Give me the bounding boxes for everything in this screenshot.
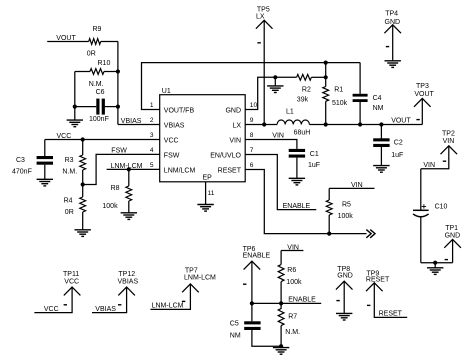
- svg-text:470nF: 470nF: [12, 169, 32, 176]
- svg-text:1uF: 1uF: [391, 152, 403, 159]
- svg-text:VIN: VIN: [423, 162, 435, 169]
- svg-text:1uF: 1uF: [308, 162, 320, 169]
- junction LX rail: [262, 122, 266, 126]
- wire R6 bottom: [280, 282, 282, 304]
- svg-text:TP4: TP4: [385, 10, 398, 17]
- svg-text:R3: R3: [65, 157, 74, 164]
- svg-text:TP12: TP12: [118, 271, 135, 278]
- svg-text:VIN: VIN: [272, 133, 284, 140]
- svg-text:R8: R8: [111, 185, 120, 192]
- wire TP2 stem: [421, 146, 449, 169]
- wire VCC to R3: [82, 140, 84, 156]
- svg-text:FSW: FSW: [111, 148, 127, 155]
- junction R6/R7/enable: [279, 301, 283, 305]
- U1 pin numbers: [150, 102, 258, 197]
- ground R2 node: [267, 86, 283, 93]
- node VOUT rail (net label): [391, 118, 411, 125]
- svg-text:VOUT/FB: VOUT/FB: [164, 107, 195, 114]
- wire C2 top: [380, 125, 382, 139]
- svg-text:TP2: TP2: [442, 131, 455, 138]
- wire VIN stub R5: [329, 187, 374, 189]
- wire bottom ground rail: [421, 262, 453, 264]
- svg-text:RESET: RESET: [379, 310, 403, 317]
- wire R7 top: [280, 303, 282, 309]
- svg-text:100k: 100k: [102, 203, 118, 210]
- svg-text:L1: L1: [286, 109, 294, 116]
- resistor R4: [64, 197, 86, 216]
- junction R10 right: [116, 69, 120, 73]
- test point TP5: [256, 7, 273, 29]
- svg-text:VOUT: VOUT: [414, 91, 434, 98]
- wire feedback down to R2 node: [325, 63, 327, 78]
- resistor R10: [89, 60, 111, 88]
- svg-text:TP3: TP3: [416, 83, 429, 90]
- node ENABLE row (net label): [288, 297, 316, 304]
- svg-text:N.M.: N.M.: [89, 81, 104, 88]
- test point TP4: [384, 10, 401, 33]
- TP9 tick: [367, 304, 370, 306]
- wire vertical R9/R10/C6/VBIAS: [117, 42, 119, 125]
- wire TP9 stem: [374, 283, 407, 318]
- svg-text:C1: C1: [310, 151, 319, 158]
- svg-text:R7: R7: [288, 314, 297, 321]
- wire R2 to R1: [311, 76, 325, 78]
- node VBIAS (net label): [121, 118, 142, 125]
- svg-text:GND: GND: [225, 107, 241, 114]
- wire R8 top: [128, 169, 130, 186]
- TP1 tick: [445, 259, 448, 261]
- ground C2: [373, 166, 389, 173]
- node RESET TP9 (net label): [379, 310, 403, 317]
- svg-text:TP11: TP11: [63, 271, 79, 278]
- capacitor C1: [289, 149, 320, 169]
- wire gnd stub: [274, 77, 276, 86]
- off-page connector reset: [366, 230, 375, 238]
- TP12 tick: [118, 304, 121, 306]
- wire enable row: [252, 302, 321, 304]
- ground C1: [289, 178, 305, 185]
- wire R9 to corner: [101, 41, 118, 43]
- svg-text:RESET: RESET: [366, 277, 390, 284]
- wire LNM-LCM pin5: [107, 168, 160, 170]
- capacitor C6: [89, 89, 109, 123]
- svg-text:68uH: 68uH: [294, 129, 311, 136]
- junction gnd node: [273, 75, 277, 79]
- svg-text:C10: C10: [435, 204, 448, 211]
- wire TP6 stem: [251, 261, 253, 303]
- wire VCC pin3: [45, 139, 160, 141]
- svg-text:VIN: VIN: [229, 137, 241, 144]
- wire L1 to TP3: [309, 124, 422, 126]
- svg-text:R6: R6: [287, 267, 296, 274]
- junction R8 top: [127, 167, 131, 171]
- svg-text:R9: R9: [93, 26, 102, 33]
- svg-text:FSW: FSW: [164, 152, 180, 159]
- junction R7/C5/ground: [279, 344, 283, 348]
- svg-text:VBIAS: VBIAS: [118, 279, 139, 286]
- junction R3/R4/FSW: [81, 182, 85, 186]
- junction feedback/R1: [324, 61, 328, 65]
- junction R1/rail: [324, 122, 328, 126]
- ground R7/C5: [273, 348, 289, 355]
- svg-text:C5: C5: [230, 320, 239, 327]
- ground R8: [121, 213, 137, 220]
- wire TP5 stem: [263, 20, 265, 124]
- svg-text:10: 10: [250, 102, 258, 109]
- svg-text:N.M.: N.M.: [62, 169, 77, 176]
- svg-text:VCC: VCC: [164, 137, 179, 144]
- capacitor C10 (polarized): [413, 204, 448, 217]
- wire C6 to ground: [74, 107, 76, 121]
- TP11 tick: [64, 304, 67, 306]
- wire TP11 stem: [34, 287, 72, 313]
- wire C1 to ground: [296, 158, 298, 179]
- test point TP2: [441, 131, 458, 155]
- resistor R5: [326, 200, 353, 220]
- wire TP4 stem: [392, 25, 394, 61]
- svg-text:VIN: VIN: [443, 138, 455, 145]
- wire C5 top: [251, 303, 253, 321]
- test point TP1: [444, 225, 461, 248]
- svg-text:VOUT: VOUT: [391, 118, 411, 125]
- svg-text:R10: R10: [98, 60, 111, 67]
- svg-text:11: 11: [208, 190, 215, 197]
- wire VIN stub R6: [281, 250, 303, 252]
- svg-text:ENABLE: ENABLE: [283, 203, 311, 210]
- U1 pin names: [164, 107, 242, 181]
- wire TP7 stem: [151, 284, 191, 310]
- test point TP9: [366, 271, 390, 292]
- inductor L1: [277, 109, 310, 137]
- svg-text:6: 6: [250, 162, 254, 169]
- svg-text:N.M.: N.M.: [285, 329, 300, 336]
- ground TP4: [385, 61, 401, 68]
- svg-text:LNM/LCM: LNM/LCM: [164, 167, 196, 174]
- svg-text:C2: C2: [394, 140, 403, 147]
- node FSW (net label): [111, 148, 127, 155]
- svg-text:LX: LX: [232, 122, 241, 129]
- wire pin9 LX: [245, 124, 277, 126]
- op-amp U1 (IC body): [160, 88, 246, 182]
- wire VIN to C10: [420, 169, 422, 211]
- wire R4 to ground: [82, 212, 84, 230]
- capacitor C2: [373, 138, 403, 159]
- wire junction to R4: [82, 185, 84, 198]
- resistor R1: [323, 86, 348, 107]
- wire pin8 VIN: [245, 140, 297, 149]
- svg-text:R4: R4: [64, 198, 73, 205]
- resistor R8: [102, 185, 131, 210]
- wire R8 to ground: [128, 201, 130, 213]
- wire pin6 reset: [245, 170, 366, 234]
- svg-text:5: 5: [150, 162, 154, 169]
- svg-text:39k: 39k: [297, 96, 309, 103]
- node VIN TP2 (net label): [423, 162, 435, 169]
- svg-text:510k: 510k: [332, 100, 348, 107]
- wire GND pin10: [245, 77, 296, 109]
- svg-text:TP1: TP1: [445, 225, 458, 232]
- svg-text:LNM-LCM: LNM-LCM: [152, 303, 184, 310]
- wire FSW link: [83, 154, 160, 184]
- wire R3 to junction: [82, 170, 84, 185]
- wire C10 to ground rail: [420, 217, 422, 263]
- test point TP6: [243, 246, 271, 269]
- node VIN above R5 (net label): [351, 182, 363, 189]
- node LNM-LCM (net label): [111, 163, 143, 170]
- wire R10 right: [104, 71, 118, 73]
- wire C5 bottom: [252, 330, 281, 346]
- wire C4 bottom: [359, 102, 361, 125]
- svg-text:100k: 100k: [286, 279, 302, 286]
- svg-text:8: 8: [250, 132, 254, 139]
- wire pin7 enable: [245, 155, 316, 210]
- svg-text:VIN: VIN: [351, 182, 363, 189]
- node VCC (net label): [57, 133, 72, 140]
- svg-text:C4: C4: [373, 95, 382, 102]
- wire VOUT to R9: [47, 41, 88, 43]
- junction C2 top: [379, 122, 383, 126]
- svg-text:C3: C3: [16, 157, 25, 164]
- svg-text:NM: NM: [373, 105, 384, 112]
- wire R10 left: [75, 71, 90, 73]
- svg-text:LNM-LCM: LNM-LCM: [184, 275, 216, 282]
- ground R4: [75, 230, 91, 237]
- node ENABLE pin7 (net label): [283, 203, 311, 210]
- wire TP12 stem: [92, 287, 127, 313]
- svg-text:EP: EP: [203, 175, 213, 182]
- svg-text:TP5: TP5: [257, 7, 270, 14]
- TP4 tick: [386, 46, 389, 48]
- svg-text:TP7: TP7: [185, 268, 198, 275]
- ground bottom right: [427, 268, 443, 275]
- junction C6 left: [73, 105, 77, 109]
- test point TP12: [118, 271, 139, 295]
- svg-text:ENABLE: ENABLE: [243, 253, 271, 260]
- svg-text:R2: R2: [302, 86, 311, 93]
- svg-text:100k: 100k: [338, 213, 354, 220]
- junction C6 right: [116, 105, 120, 109]
- junction TP6/C5/enable: [250, 301, 254, 305]
- svg-text:NM: NM: [230, 333, 241, 340]
- resistor R6: [278, 265, 302, 286]
- TP7 tick: [182, 300, 185, 302]
- TP6 tick: [243, 283, 246, 285]
- wire VIN to R6: [280, 251, 282, 265]
- svg-text:9: 9: [250, 117, 254, 124]
- svg-text:2: 2: [150, 117, 154, 124]
- TP5 tick: [257, 42, 260, 44]
- wire feedback pin1: [142, 63, 361, 110]
- wire C2 to ground: [380, 147, 382, 166]
- svg-text:VCC: VCC: [64, 279, 79, 286]
- svg-text:VBIAS: VBIAS: [95, 306, 116, 313]
- capacitor C5: [230, 320, 261, 339]
- capacitor C3: [12, 156, 53, 176]
- wire R1 bottom: [325, 101, 327, 124]
- wire VBIAS pin2: [118, 124, 160, 126]
- junction ground rail: [433, 261, 437, 265]
- resistor R9: [87, 26, 102, 57]
- ground C6: [67, 120, 83, 127]
- ground C3: [37, 179, 53, 186]
- svg-text:LX: LX: [256, 14, 265, 21]
- wire R5 top: [328, 188, 330, 200]
- resistor R3: [62, 155, 85, 176]
- svg-text:GND: GND: [337, 273, 353, 280]
- svg-text:VBIAS: VBIAS: [164, 122, 185, 129]
- svg-text:RESET: RESET: [218, 167, 242, 174]
- svg-text:0R: 0R: [87, 51, 96, 58]
- wire TP8 stem: [343, 281, 345, 313]
- node VCC TP11 (net label): [44, 306, 59, 313]
- node LNM-LCM TP7 (net label): [152, 303, 184, 310]
- TP2 tick: [443, 160, 446, 162]
- svg-text:ENABLE: ENABLE: [288, 297, 316, 304]
- svg-text:100nF: 100nF: [89, 116, 109, 123]
- svg-text:EN/UVLO: EN/UVLO: [210, 152, 241, 159]
- wire C3 to ground: [44, 165, 46, 180]
- wire C6 left: [75, 106, 97, 108]
- TP8 tick: [336, 300, 339, 302]
- junction C4/rail: [358, 122, 362, 126]
- wire left vertical to C6: [74, 72, 76, 107]
- wire gnd stub2: [434, 263, 436, 268]
- ground EP: [197, 205, 213, 212]
- wire R5 bottom: [328, 215, 330, 234]
- svg-text:GND: GND: [445, 233, 461, 240]
- test point TP3: [414, 83, 435, 107]
- node VBIAS TP12 (net label): [95, 306, 116, 313]
- resistor R7: [278, 309, 300, 336]
- svg-text:4: 4: [150, 147, 154, 154]
- junction R5/reset: [327, 232, 331, 236]
- wire R1 top: [325, 77, 327, 86]
- wire R7 bottom: [280, 326, 282, 347]
- svg-text:1: 1: [150, 102, 154, 109]
- test point TP7: [182, 268, 216, 293]
- svg-text:3: 3: [150, 132, 154, 139]
- svg-text:R1: R1: [334, 86, 343, 93]
- node VIN pin8 (net label): [272, 133, 284, 140]
- svg-text:U1: U1: [162, 88, 171, 95]
- test point TP11: [63, 271, 80, 295]
- svg-text:R5: R5: [342, 202, 351, 209]
- capacitor C4: [353, 94, 384, 112]
- junction R2/R1: [324, 75, 328, 79]
- wire TP3 stem: [421, 98, 423, 124]
- wire VCC to C3: [44, 140, 46, 157]
- svg-text:VCC: VCC: [44, 306, 59, 313]
- test point TP8: [336, 266, 353, 290]
- wire EP pin11: [205, 182, 207, 205]
- node VOUT (net label): [56, 35, 76, 42]
- wire TP1 stem: [452, 239, 454, 262]
- TP3 tick: [416, 119, 419, 121]
- svg-text:C6: C6: [96, 89, 105, 96]
- resistor R2: [297, 74, 312, 103]
- svg-text:LNM-LCM: LNM-LCM: [111, 163, 143, 170]
- wire feedback to C4: [359, 63, 361, 94]
- junction VCC/R3: [81, 137, 85, 141]
- svg-text:7: 7: [250, 147, 254, 154]
- ground TP8: [336, 313, 352, 320]
- wire C6 right: [105, 106, 118, 108]
- svg-text:0R: 0R: [65, 209, 74, 216]
- node VIN above R6 (net label): [287, 244, 299, 251]
